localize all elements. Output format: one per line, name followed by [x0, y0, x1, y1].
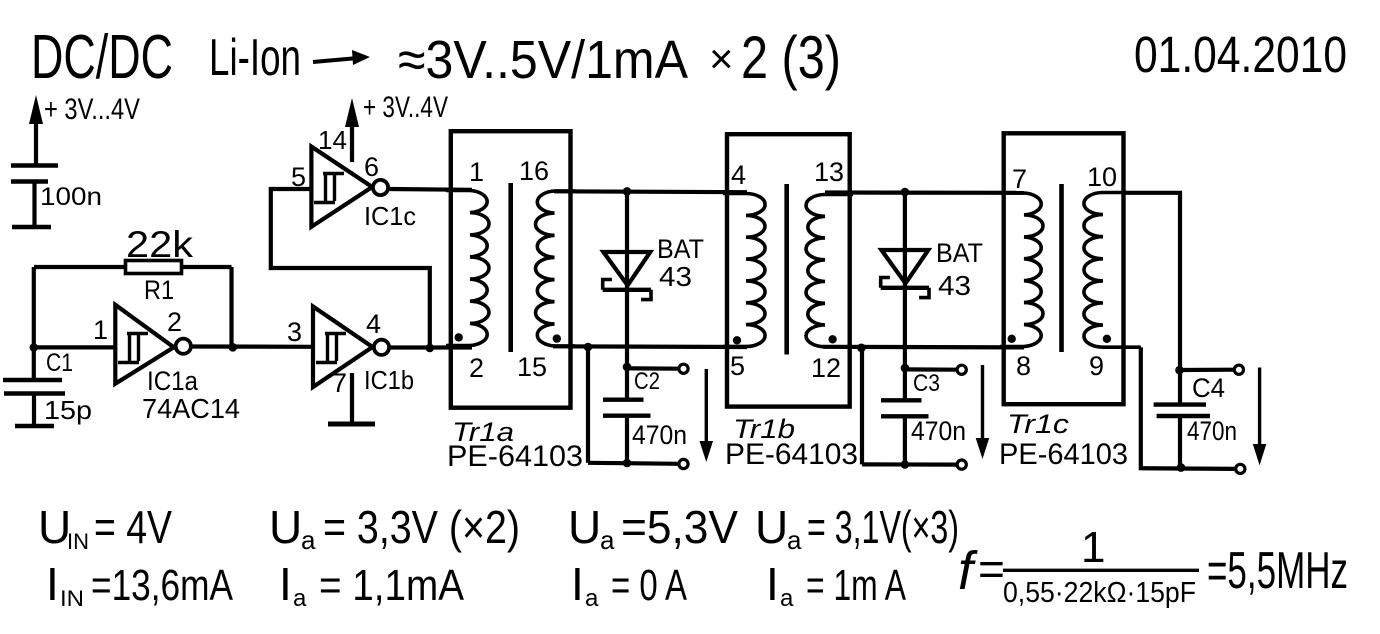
svg-text:10: 10: [1087, 162, 1117, 192]
terminal ring C3 top: [957, 365, 966, 374]
terminal ring C2 top: [679, 364, 688, 373]
capacitor C3 plates: [881, 398, 922, 402]
node dot C2 top: [623, 363, 632, 372]
svg-text:7: 7: [332, 368, 347, 398]
title arrow: [313, 58, 358, 62]
svg-text:C3: C3: [913, 370, 940, 397]
wire C2 top to terminal: [627, 366, 680, 371]
svg-text:=5,3V: =5,3V: [621, 501, 738, 553]
inverter IC1c triangle: [311, 147, 372, 227]
resistor R1 body: [126, 261, 182, 274]
svg-text:a: a: [600, 525, 615, 555]
supply arrow +3V..4V left: [34, 118, 38, 165]
wire C2 junction to plate: [625, 367, 629, 400]
wire C4 junction to plate: [1178, 370, 1182, 405]
IC1c output bubble: [373, 180, 388, 195]
wire IC1c out: [388, 187, 472, 192]
svg-text:PE-64103: PE-64103: [725, 438, 858, 471]
svg-text:2 (3): 2 (3): [741, 24, 841, 91]
svg-text:= 3,3V (×2): = 3,3V (×2): [323, 501, 520, 553]
node dot C2 bottom: [623, 459, 632, 468]
svg-text:74AC14: 74AC14: [142, 393, 240, 424]
svg-text:=: =: [978, 543, 1005, 595]
svg-text:≈3V..5V/1mA: ≈3V..5V/1mA: [398, 30, 688, 90]
transformer Tr1c box: [1004, 133, 1124, 404]
wire C3 junction to plate: [903, 368, 907, 400]
wire IC1b out: [389, 345, 472, 349]
Tr1c primary winding: [1000, 193, 1043, 347]
IC1c hysteresis glyph: [314, 174, 344, 203]
svg-text:U: U: [568, 501, 601, 553]
wire feedback IC1c: [271, 189, 430, 348]
svg-text:1: 1: [469, 157, 484, 187]
svg-text:6: 6: [364, 152, 379, 182]
terminal ring C3 bottom: [957, 460, 966, 469]
wire Tr1c pin10 right: [1122, 193, 1180, 370]
svg-text:Tr1c: Tr1c: [1007, 409, 1070, 439]
diode D1 BAT43: [625, 191, 629, 366]
Tr1c secondary winding: [1084, 193, 1141, 348]
svg-text:a: a: [585, 585, 599, 612]
wire R1 left: [34, 265, 126, 269]
capacitor C1 plates: [3, 378, 62, 383]
node dot C4 bottom: [1177, 463, 1186, 472]
svg-text:01.04.2010: 01.04.2010: [1134, 26, 1347, 83]
node dot D2 top: [901, 188, 910, 197]
terminal ring C4 top: [1234, 365, 1243, 374]
Tr1b core: [784, 184, 789, 355]
svg-text:= 1m A: = 1m A: [806, 561, 906, 610]
supply arrow +3V..4V IC1c: [350, 120, 354, 162]
svg-text:PE-64103: PE-64103: [999, 438, 1128, 471]
svg-text:= 0 A: = 0 A: [611, 561, 687, 610]
svg-text:4: 4: [731, 160, 746, 190]
Tr1a core: [508, 183, 513, 352]
wire C2 plate to bottom: [625, 416, 629, 463]
wire C3 bottom bus: [862, 462, 957, 466]
svg-text:0,55·22kΩ·15pF: 0,55·22kΩ·15pF: [1003, 577, 1196, 609]
Tr1c phase dot secondary: [1103, 335, 1111, 343]
wire bottom bus a-b: [553, 344, 747, 349]
Tr1a phase dot secondary: [553, 334, 561, 342]
svg-text:BAT: BAT: [936, 238, 983, 268]
Tr1c core: [1059, 184, 1064, 352]
svg-text:43: 43: [659, 261, 692, 292]
diode D2 BAT43: [903, 192, 907, 368]
eq fraction bar: [1003, 569, 1199, 572]
svg-text:15p: 15p: [44, 395, 92, 425]
svg-text:= 1,1mA: = 1,1mA: [319, 561, 465, 610]
svg-text:×: ×: [709, 35, 734, 82]
wire Tr1c pin9 down: [1141, 347, 1236, 469]
svg-text:8: 8: [1016, 351, 1031, 381]
IC1a output bubble: [176, 339, 191, 354]
node dot Tr1b sec bottom: [857, 344, 866, 353]
svg-text:IC1b: IC1b: [364, 365, 414, 395]
svg-text:1: 1: [1081, 523, 1105, 572]
wire R1 right vertical: [229, 267, 233, 347]
node dot C4 top: [1175, 366, 1184, 375]
svg-text:IN: IN: [60, 586, 84, 611]
wire C3 plate to bottom: [903, 416, 907, 464]
wire C4 top to terminal: [1180, 368, 1235, 372]
wire R1 right: [181, 265, 232, 269]
wire C1 to bar: [32, 394, 36, 427]
ground IC1b pin7: [350, 373, 354, 423]
wire C2 left vertical: [586, 347, 590, 463]
IC1b hysteresis glyph: [316, 334, 346, 363]
svg-text:I: I: [766, 558, 779, 610]
svg-text:1: 1: [93, 315, 108, 345]
Tr1b phase dot primary: [733, 336, 741, 344]
Tr1b secondary winding: [806, 195, 853, 347]
Tr1a primary winding: [446, 191, 489, 346]
svg-text:U: U: [755, 501, 788, 553]
Tr1c phase dot primary: [1008, 335, 1016, 343]
svg-text:3: 3: [287, 317, 302, 347]
inverter IC1b triangle: [313, 307, 373, 388]
wire C3 left vertical: [860, 348, 864, 465]
svg-text:C2: C2: [634, 368, 660, 395]
svg-text:+ 3V...4V: + 3V...4V: [44, 93, 140, 126]
wire IC1a out: [191, 344, 313, 348]
svg-text:a: a: [787, 525, 802, 555]
svg-text:R1: R1: [144, 275, 174, 305]
svg-text:a: a: [301, 525, 316, 555]
Tr1a phase dot primary: [455, 333, 463, 341]
svg-text:14: 14: [318, 125, 347, 155]
svg-text:16: 16: [519, 156, 549, 186]
svg-text:470n: 470n: [632, 420, 687, 450]
node dot C3 top: [901, 364, 910, 373]
wire 100n to bar: [32, 182, 36, 228]
svg-text:IC1c: IC1c: [364, 201, 416, 231]
Tr1a secondary winding: [536, 191, 576, 346]
svg-text:= 3,1V(×3): = 3,1V(×3): [807, 501, 959, 553]
node dot IC1a out: [229, 343, 238, 352]
C1 bottom bar: [15, 424, 54, 429]
IC1a hysteresis glyph: [118, 334, 148, 363]
svg-text:100n: 100n: [40, 183, 102, 211]
svg-text:2: 2: [167, 307, 182, 337]
node dot C3 bottom: [901, 460, 910, 469]
node dot feedback: [426, 344, 435, 353]
svg-text:=5,5MHz: =5,5MHz: [1207, 542, 1348, 600]
100n bottom bar: [12, 225, 51, 230]
capacitor C2 plates: [603, 398, 644, 402]
terminal ring C2 bottom: [679, 459, 688, 468]
svg-text:= 4V: = 4V: [94, 501, 172, 553]
wire input to IC1a: [33, 345, 115, 349]
terminal ring C4 bottom: [1236, 464, 1245, 473]
svg-text:2: 2: [469, 353, 484, 383]
svg-text:Li-Ion: Li-Ion: [209, 29, 301, 87]
svg-text:a: a: [293, 585, 307, 612]
capacitor C4 plates: [1154, 402, 1206, 406]
svg-text:PE-64103: PE-64103: [447, 440, 583, 473]
svg-text:470n: 470n: [1187, 416, 1237, 446]
wire C2 bottom bus: [588, 463, 679, 464]
svg-text:=13,6mA: =13,6mA: [91, 561, 234, 610]
svg-text:5: 5: [730, 351, 745, 381]
output arrow 3: [1258, 368, 1261, 449]
node dot Tr1a sec bottom: [584, 343, 593, 352]
node dot input: [30, 343, 39, 352]
output arrow 2: [981, 365, 984, 441]
svg-text:C4: C4: [1192, 373, 1225, 403]
svg-text:BAT: BAT: [657, 234, 704, 264]
Tr1b primary winding: [723, 194, 765, 347]
svg-text:IN: IN: [67, 529, 89, 554]
svg-text:a: a: [780, 585, 794, 612]
wire top bus b-c: [825, 190, 1024, 195]
wire C4 plate to bottom: [1178, 416, 1182, 468]
svg-text:470n: 470n: [911, 416, 966, 446]
wire C3 top to terminal: [905, 367, 958, 372]
wire top bus a-b: [554, 189, 747, 194]
node dot D1 top: [623, 187, 632, 196]
svg-text:DC/DC: DC/DC: [31, 23, 173, 92]
svg-text:I: I: [571, 558, 584, 610]
transformer Tr1b box: [727, 134, 850, 406]
svg-text:C1: C1: [46, 349, 73, 377]
svg-text:43: 43: [938, 270, 971, 301]
svg-text:I: I: [279, 558, 292, 610]
svg-text:+ 3V..4V: + 3V..4V: [363, 91, 448, 124]
svg-text:15: 15: [517, 352, 547, 382]
svg-text:4: 4: [366, 309, 381, 339]
wire bottom bus b-c: [823, 345, 1024, 350]
svg-text:I: I: [46, 558, 59, 610]
svg-text:7: 7: [1012, 164, 1027, 194]
Tr1b phase dot secondary: [828, 335, 836, 343]
inverter IC1a triangle: [115, 305, 174, 384]
svg-text:12: 12: [811, 353, 841, 383]
wire left vertical C1 node: [32, 267, 36, 380]
output arrow 1: [705, 369, 708, 445]
svg-text:9: 9: [1089, 351, 1104, 381]
capacitor C-100n plates: [11, 163, 58, 168]
svg-text:13: 13: [814, 157, 844, 187]
svg-text:22k: 22k: [126, 224, 194, 265]
transformer Tr1a box: [451, 131, 571, 408]
svg-text:IC1a: IC1a: [147, 366, 199, 396]
svg-text:U: U: [269, 501, 302, 553]
IC1b output bubble: [374, 340, 389, 355]
